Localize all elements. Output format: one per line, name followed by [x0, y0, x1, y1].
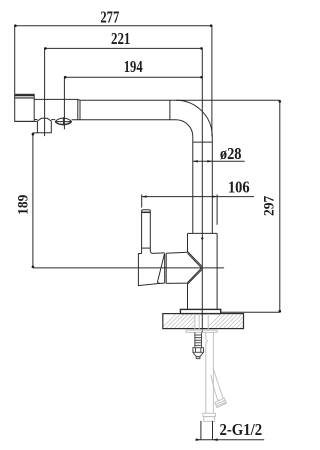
deck plate: [163, 314, 244, 329]
body right edge: [216, 233, 218, 309]
angled hose: [213, 369, 223, 399]
nozzle top bands: [15, 94, 35, 96]
dimension o28 line: [193, 160, 245, 162]
straight hose: [203, 332, 226, 421]
dimension 106 arrows: [142, 195, 217, 197]
supply nipple dark: [193, 332, 204, 358]
thread ticks: [194, 335, 202, 345]
washer under deck: [186, 330, 217, 332]
spout elbow joint: [169, 100, 171, 120]
handle grip top edge: [152, 252, 165, 255]
spout bottom edge left tube: [34, 119, 37, 121]
svg-text:297: 297: [261, 196, 278, 216]
dimension 221 line: [45, 48, 203, 136]
label arrows: [196, 438, 218, 441]
lever joint tick: [142, 247, 151, 249]
svg-text:2-G1/2: 2-G1/2: [219, 421, 262, 439]
svg-text:277: 277: [100, 9, 119, 27]
label 2-G1/2 ticks: [196, 421, 265, 440]
hose end connector: [203, 413, 216, 416]
svg-text:ø28: ø28: [220, 145, 242, 163]
nipple nut: [193, 348, 204, 353]
dimension 297 end dots: [279, 100, 282, 312]
dimension 106 extension stubs: [141, 194, 143, 207]
nozzle bottom lip: [15, 120, 38, 122]
lever cap line: [142, 211, 151, 213]
body top edge: [188, 232, 218, 234]
lever left edge: [141, 211, 143, 254]
elbow inner curve: [176, 120, 193, 137]
lever right edge: [150, 211, 152, 254]
nut taper: [193, 352, 204, 356]
aerator lens: [55, 118, 71, 122]
cone lower edge double: [188, 268, 202, 283]
deck hatching: [160, 312, 261, 330]
dimension 277 end dots: [14, 24, 212, 27]
body left edge lower: [187, 283, 189, 309]
base flange: [180, 309, 220, 313]
dimension 189 end dots: [32, 133, 35, 268]
pipe left edge: [192, 137, 194, 234]
spout tube joint: [77, 99, 79, 119]
spout bottom edge right tube: [72, 119, 176, 121]
body screw dot: [201, 237, 203, 239]
spout top edge + 297 extension: [34, 98, 280, 101]
dimension 194 line: [64, 77, 202, 129]
shank through deck: [186, 314, 217, 333]
dimension 277 line: [15, 26, 212, 137]
dimension 106 line: [142, 196, 254, 198]
body left edge upper: [187, 233, 189, 252]
dimension 189 line: [33, 133, 38, 268]
diverter bump below spout: [37, 118, 51, 133]
lever top cap: [142, 210, 151, 211]
cone upper edge double: [188, 253, 202, 268]
handle grip diagonal: [158, 254, 165, 284]
extension line y268 to cone apex: [33, 267, 224, 269]
handle flange quad: [166, 252, 187, 253]
svg-text:221: 221: [111, 30, 130, 48]
angled hose nut: [215, 398, 227, 408]
svg-text:189: 189: [15, 195, 32, 215]
elbow outer curve: [176, 100, 212, 136]
nut tip: [196, 357, 200, 359]
svg-text:106: 106: [228, 178, 250, 196]
handle grip outline: [138, 254, 164, 286]
spout nozzle block: [15, 94, 35, 121]
hose break mark: [206, 340, 208, 342]
handle ring: [164, 254, 166, 284]
svg-text:194: 194: [124, 59, 143, 77]
dimension 297 line: [221, 100, 280, 312]
dimension 221 end dots: [44, 47, 203, 50]
dimension o28 arrows: [193, 160, 213, 162]
pipe joint line under elbow: [193, 141, 213, 143]
dimension 194 end dots: [64, 76, 203, 79]
pipe right edge: [211, 137, 213, 234]
pipe centerline extension: [201, 48, 203, 332]
